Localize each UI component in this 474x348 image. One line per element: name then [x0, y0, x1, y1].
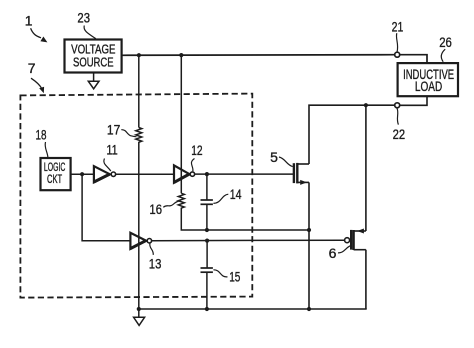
resistor R16	[178, 193, 184, 208]
capacitor C14	[201, 174, 213, 230]
wire: branch down from logic output to inverter 13 input	[82, 174, 131, 241]
svg-text:6: 6	[329, 245, 337, 261]
ground	[134, 309, 145, 325]
capacitor C15	[201, 241, 213, 309]
svg-text:LOGIC: LOGIC	[44, 162, 66, 174]
svg-text:SOURCE: SOURCE	[73, 55, 114, 70]
inverter U11	[94, 166, 116, 182]
wire: vertical from rail down to resistor 17	[138, 55, 140, 127]
svg-text:15: 15	[229, 269, 240, 285]
dashed box 7: driver circuit boundary	[20, 94, 252, 298]
wire: resistor 16 bottom down then right to capacitor 14 node and M5 source column	[181, 208, 309, 230]
resistor R17	[136, 128, 142, 143]
svg-text:11: 11	[106, 142, 118, 158]
svg-text:18: 18	[36, 126, 47, 142]
wire: vertical from rail through inverter 12 down to resistor 16	[180, 55, 182, 193]
wire: top supply rail from voltage source to terminal 21	[121, 54, 394, 57]
svg-text:7: 7	[28, 60, 36, 76]
wire: M6 source down to ground rail corner	[365, 250, 367, 309]
terminal 21 (open circle)	[395, 52, 400, 57]
wire: M5 drain up and right to terminal 22 line	[309, 105, 394, 164]
svg-text:17: 17	[107, 121, 121, 137]
svg-text:22: 22	[393, 126, 406, 142]
box: LOGIC CKT (18)	[41, 158, 71, 190]
wire: inverter 13 output to MOSFET 6 gate bubble	[152, 239, 345, 242]
svg-text:1: 1	[25, 12, 33, 28]
wire: bottom ground rail	[139, 308, 367, 310]
wire: inverter 11 output to inverter 12 input	[116, 173, 175, 175]
terminal 22 (open circle)	[395, 103, 400, 108]
svg-text:5: 5	[270, 149, 278, 165]
node: junction dot rail / resistor 17 branch	[137, 53, 141, 57]
box: VOLTAGE SOURCE (23)	[65, 40, 122, 73]
svg-text:CKT: CKT	[47, 174, 62, 186]
svg-text:LOAD: LOAD	[415, 79, 442, 94]
inverter U13	[130, 233, 151, 249]
box: INDUCTIVE LOAD (26)	[398, 63, 458, 96]
inverter U12	[174, 165, 195, 182]
wire: rail continuation from terminal 21 into inductive load top	[400, 55, 427, 64]
node: junction dot cap15 top	[205, 239, 209, 243]
transistor Q6 (MOSFET with gate bubble)	[345, 229, 366, 251]
node: junction dot ground stub	[137, 307, 141, 311]
svg-text:13: 13	[149, 256, 162, 272]
svg-text:21: 21	[392, 19, 404, 35]
wire: logic ckt output to inverter 11 input	[71, 173, 95, 175]
node: junction dot M6 drain column on line 22	[364, 103, 368, 107]
wire: line 22 from terminal to inductive load bottom	[400, 96, 427, 105]
svg-text:26: 26	[439, 34, 452, 50]
node: junction dot cap14 bottom	[205, 228, 209, 232]
node: junction dot logic output branch	[80, 172, 84, 176]
svg-text:23: 23	[77, 9, 90, 25]
transistor Q5 (n-channel MOSFET)	[294, 163, 309, 185]
wire: M6 drain up to line 22	[365, 105, 367, 231]
node: junction dot rail / inverter 12 supply branch	[179, 53, 183, 57]
wire: M5 source down to ground rail	[308, 182, 310, 309]
wire: vertical from resistor 17 down through inverter 13 to ground node	[138, 142, 140, 309]
node: junction dot M5 source on ground rail	[307, 307, 311, 311]
node: junction dot cap15 bottom on ground rail	[205, 307, 209, 311]
node: junction dot at M5 source column y230	[307, 228, 311, 232]
node: junction dot cap14 top	[205, 172, 209, 176]
svg-text:16: 16	[149, 201, 162, 217]
svg-text:14: 14	[230, 186, 242, 202]
wire: inverter 12 output to MOSFET 5 gate	[195, 173, 293, 175]
svg-text:12: 12	[191, 142, 203, 158]
arrow: supply arrow below voltage source box	[93, 73, 95, 82]
